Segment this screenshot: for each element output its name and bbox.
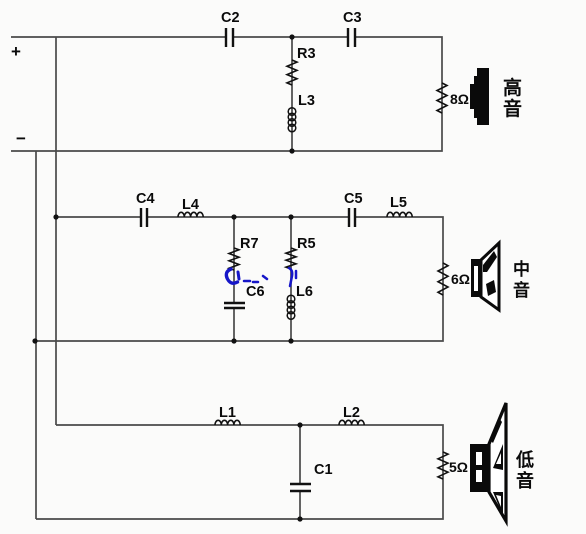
svg-text:C2: C2 (221, 10, 240, 26)
svg-text:8Ω: 8Ω (450, 91, 469, 107)
svg-text:C4: C4 (136, 191, 155, 207)
svg-text:音: 音 (516, 470, 534, 491)
svg-text:6Ω: 6Ω (451, 271, 470, 287)
svg-text:C6: C6 (246, 284, 265, 300)
svg-text:−: − (16, 129, 26, 148)
svg-text:L6: L6 (296, 284, 313, 300)
svg-text:低: 低 (515, 449, 534, 470)
svg-text:音: 音 (513, 280, 530, 300)
svg-text:+: + (11, 42, 21, 61)
svg-text:L4: L4 (182, 197, 199, 213)
svg-text:L5: L5 (390, 195, 407, 211)
svg-text:R3: R3 (297, 46, 316, 62)
svg-text:C5: C5 (344, 191, 363, 207)
svg-text:音: 音 (503, 97, 522, 120)
svg-text:C1: C1 (314, 462, 333, 478)
svg-text:L1: L1 (219, 405, 236, 421)
svg-text:C3: C3 (343, 10, 362, 26)
svg-text:5Ω: 5Ω (449, 459, 468, 475)
svg-text:高: 高 (503, 76, 522, 99)
svg-text:中: 中 (513, 259, 530, 279)
svg-text:R5: R5 (297, 236, 316, 252)
svg-text:R7: R7 (240, 236, 259, 252)
svg-text:L2: L2 (343, 405, 360, 421)
svg-text:L3: L3 (298, 93, 315, 109)
